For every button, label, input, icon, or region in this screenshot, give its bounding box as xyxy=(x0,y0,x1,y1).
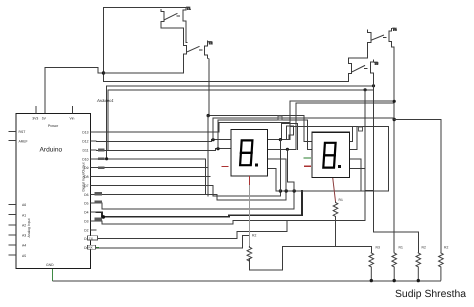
svg-text:D6: D6 xyxy=(84,193,88,197)
wire disp1 right pin row b xyxy=(267,148,296,150)
wire D11 row xyxy=(97,149,232,151)
resistor R2b bottom xyxy=(416,252,421,281)
labels analog pins xyxy=(22,203,26,258)
svg-text:RST: RST xyxy=(19,130,26,134)
svg-text:D9: D9 xyxy=(84,166,88,170)
wire dot bus y191 xyxy=(280,127,388,191)
svg-text:T1: T1 xyxy=(187,7,191,11)
wire T1 collector staircase to T2 xyxy=(161,24,184,46)
svg-text:A4: A4 xyxy=(22,244,26,248)
digit 8 display2 xyxy=(323,143,335,168)
node A xyxy=(102,71,105,74)
pins arduino right xyxy=(91,132,97,247)
svg-text:5V: 5V xyxy=(42,116,47,120)
wire disp2 dp to R1 xyxy=(333,178,336,202)
svg-text:A2: A2 xyxy=(22,224,26,228)
IC U1 Arduino box xyxy=(16,113,90,268)
node D4 junction xyxy=(102,215,106,219)
wire riser pb down xyxy=(287,149,294,191)
wire disp2 right nest c xyxy=(349,159,362,191)
wire D1 row xyxy=(97,220,288,238)
wire T2 emitter to bus xyxy=(208,58,209,116)
svg-text:D13: D13 xyxy=(82,131,88,135)
node pb xyxy=(286,148,289,151)
wire disp2 right nest d xyxy=(349,90,366,169)
wire trio bus a xyxy=(208,116,312,142)
svg-text:R2: R2 xyxy=(444,246,448,250)
svg-text:Power: Power xyxy=(48,124,59,128)
node j1 xyxy=(279,189,282,192)
wire T4 emitter down to R2b xyxy=(392,44,395,252)
node trio-a start xyxy=(207,114,210,117)
svg-text:TX: TX xyxy=(89,236,93,240)
svg-text:Arduino1: Arduino1 xyxy=(96,98,114,103)
svg-text:R1: R1 xyxy=(399,246,403,250)
resistor R2c bottom xyxy=(439,252,444,281)
svg-text:T4: T4 xyxy=(393,28,397,32)
wire GND bus xyxy=(53,280,441,282)
wire D3 row xyxy=(97,191,374,225)
node T4 line junction xyxy=(393,118,396,121)
svg-text:T3: T3 xyxy=(374,62,378,66)
node gnd r1 xyxy=(393,279,396,282)
svg-text:T2: T2 xyxy=(208,41,212,45)
wire bus3 xyxy=(108,90,374,151)
node gnd r2 xyxy=(417,279,420,282)
wire D10 row xyxy=(97,159,206,194)
pin tag TX xyxy=(88,236,98,240)
node pair-T4 xyxy=(393,100,396,103)
pin tags xyxy=(95,149,105,221)
svg-text:D7: D7 xyxy=(84,184,88,188)
svg-text:R1: R1 xyxy=(339,198,343,202)
svg-text:Vin: Vin xyxy=(70,116,75,120)
wire pair bus b xyxy=(296,103,394,150)
wire D12 row xyxy=(97,140,232,142)
wire D5 row xyxy=(97,191,295,209)
wire T1 emitter down xyxy=(186,23,187,42)
svg-text:D10: D10 xyxy=(82,157,88,161)
digit 8 display1 xyxy=(240,140,252,165)
svg-text:A0: A0 xyxy=(22,203,26,207)
pin disp2 left red xyxy=(304,165,311,167)
wire disp1 dp down to R2m xyxy=(248,185,250,246)
node j3 xyxy=(293,189,296,192)
resistor R2 middle xyxy=(247,246,252,262)
transistor T2 xyxy=(184,41,208,59)
wire T2 line continues xyxy=(207,116,209,197)
svg-text:D8: D8 xyxy=(84,175,88,179)
wire pair bus a xyxy=(290,101,394,140)
svg-text:Sudip Shrestha: Sudip Shrestha xyxy=(395,289,466,300)
svg-text:D12: D12 xyxy=(82,140,88,144)
label U2 xyxy=(278,116,282,120)
pins arduino left xyxy=(9,132,17,256)
wire box1 top wrap xyxy=(219,121,290,123)
wire R1m bottom rail xyxy=(282,246,371,252)
wire D0 row to R2m staircase xyxy=(97,236,250,248)
wire disp1 right pin row c xyxy=(267,159,286,191)
node bus3-disp2 xyxy=(364,88,367,91)
wire D13 row xyxy=(97,122,219,132)
svg-text:D2: D2 xyxy=(84,228,88,232)
svg-text:AREF: AREF xyxy=(19,139,28,143)
wire node A to T2 emitter xyxy=(104,59,184,74)
svg-text:RX: RX xyxy=(89,246,93,250)
wire disp2 right nest a xyxy=(349,127,353,142)
node pa xyxy=(279,138,282,141)
svg-text:A3: A3 xyxy=(22,234,26,238)
wire bus2 xyxy=(107,86,374,159)
node pin1 xyxy=(212,138,215,141)
svg-text:D11: D11 xyxy=(83,149,89,153)
svg-text:GND: GND xyxy=(46,263,54,267)
wire R2m bottom loop xyxy=(249,246,282,270)
wire trio bus c xyxy=(218,120,313,149)
svg-text:R2: R2 xyxy=(252,234,256,238)
display U3 (right 7-seg) xyxy=(312,132,350,177)
pin disp2 left green xyxy=(304,157,312,159)
wire D9 row xyxy=(97,167,209,169)
wire disp1 right pin row d xyxy=(267,168,280,191)
node bus2-T3 xyxy=(372,84,375,87)
wire bus1 xyxy=(104,74,349,82)
pin disp1 bottom red xyxy=(248,176,250,185)
wire disp2 right nest b xyxy=(349,127,357,150)
labels digital pins xyxy=(82,131,88,250)
svg-text:D4: D4 xyxy=(84,211,88,215)
svg-text:R3: R3 xyxy=(376,246,380,250)
wire box1 corner bundle xyxy=(281,124,297,150)
pin tag RX xyxy=(88,245,100,249)
resistor R1 middle xyxy=(333,202,338,247)
resistor R1 bottom xyxy=(392,252,397,281)
wire disp1 right pin row a xyxy=(267,139,290,141)
wire D4 row thick xyxy=(97,191,303,217)
svg-text:Arduino: Arduino xyxy=(40,147,63,154)
wire disp1 left riser a xyxy=(212,118,214,140)
label U3 xyxy=(359,127,363,131)
wire D7 row xyxy=(97,186,281,197)
svg-text:D3: D3 xyxy=(84,220,88,224)
pin disp1 left red xyxy=(222,166,229,168)
wire 5V to node A xyxy=(45,68,104,114)
resistor R3 bottom xyxy=(369,252,374,281)
transistor T1 xyxy=(161,8,186,24)
wire disp2 nest d lower xyxy=(364,168,366,190)
wire branch to R4b xyxy=(394,120,441,253)
svg-text:A1: A1 xyxy=(22,213,26,217)
wire disp1 left riser b xyxy=(217,120,219,149)
node pin2 xyxy=(216,147,219,150)
svg-text:A5: A5 xyxy=(22,254,26,258)
svg-text:3V3: 3V3 xyxy=(32,116,38,120)
transistor T3 xyxy=(348,60,373,76)
wire riser pa down xyxy=(279,140,281,191)
node gnd r3 xyxy=(370,279,373,282)
svg-text:Analog Input: Analog Input xyxy=(27,218,31,237)
svg-text:D5: D5 xyxy=(84,202,88,206)
wire GND green stub xyxy=(52,268,54,281)
node j2 xyxy=(285,189,288,192)
wire D8 row xyxy=(97,176,211,178)
pins arduino top xyxy=(36,106,73,113)
display U2 (left 7-seg) xyxy=(231,130,267,177)
wire trio bus b xyxy=(213,117,394,119)
svg-text:R2: R2 xyxy=(422,246,426,250)
wire T3 emitter down to R jog xyxy=(374,76,419,253)
wire top-left riser xyxy=(104,8,187,82)
wire box1 corner inner xyxy=(286,126,293,140)
transistor T4 xyxy=(368,29,392,45)
wire T3 staircase to T4 xyxy=(348,44,367,62)
node D10-bus2 xyxy=(105,157,108,160)
wire D6 row xyxy=(97,191,287,200)
